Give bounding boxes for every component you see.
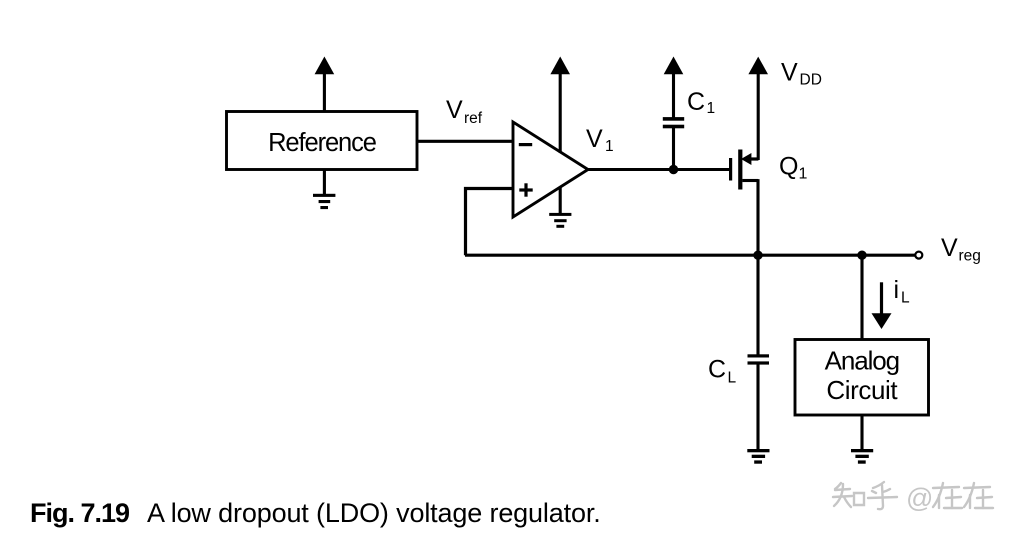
- svg-text:C: C: [687, 88, 705, 116]
- svg-text:i: i: [894, 276, 900, 304]
- svg-text:@: @: [906, 483, 933, 513]
- caption Fig. 7.19: [30, 498, 601, 528]
- svg-text:Analog: Analog: [825, 346, 899, 376]
- svg-text:L: L: [901, 290, 910, 307]
- supply arrow above Reference: [315, 57, 335, 112]
- supply arrow VDD: [748, 57, 768, 160]
- transistor Q1 (PMOS): [729, 150, 758, 256]
- wire Vref: reference output to op-amp inverting input: [417, 140, 513, 143]
- value label C1: [687, 88, 715, 117]
- analog circuit box: [795, 340, 929, 416]
- ground under analog circuit: [851, 449, 873, 464]
- wire Vreg rail: [465, 254, 915, 257]
- char zhi (mouth box): [854, 493, 864, 505]
- char zai 2: [964, 487, 990, 488]
- net label VDD: [781, 59, 822, 89]
- svg-text:Q: Q: [779, 153, 798, 181]
- op-amp U1 triangle: [513, 122, 588, 217]
- svg-text:V: V: [586, 125, 603, 153]
- ground under reference box: [313, 170, 335, 210]
- char zhi (left radical): [835, 483, 841, 489]
- junction dot at Q1 drain / CL: [753, 251, 762, 260]
- svg-text:Reference: Reference: [268, 129, 377, 157]
- op-amp minus sign (inverting input): [519, 143, 532, 146]
- svg-text:Fig. 7.19: Fig. 7.19: [30, 498, 130, 528]
- transistor label Q1: [779, 153, 808, 183]
- wire analog circuit to ground: [860, 415, 863, 450]
- supply arrow above C1: [664, 57, 684, 118]
- svg-text:V: V: [446, 96, 463, 124]
- svg-text:1: 1: [605, 138, 614, 155]
- current label iL: [894, 276, 911, 307]
- svg-text:V: V: [941, 234, 958, 262]
- open terminal circle Vreg: [915, 252, 922, 259]
- junction node V1 dot: [669, 165, 678, 174]
- svg-text:ref: ref: [464, 110, 483, 127]
- net label Vreg: [941, 234, 981, 265]
- svg-text:Circuit: Circuit: [826, 375, 898, 405]
- svg-text:1: 1: [707, 100, 716, 117]
- char zai 1: [933, 487, 959, 488]
- node label Vref: [446, 96, 483, 127]
- node label V1: [586, 125, 614, 155]
- wire op-amp output (node V1): [587, 168, 730, 171]
- svg-text:1: 1: [799, 166, 808, 183]
- ground under CL: [747, 449, 769, 464]
- wire feedback: non-inverting input down to Vreg rail: [466, 189, 514, 256]
- capacitor CL: [748, 354, 770, 450]
- op-amp plus sign (non-inverting input): [519, 183, 532, 196]
- reference box: [227, 112, 418, 170]
- ground under op-amp: [549, 187, 571, 228]
- svg-text:L: L: [728, 370, 737, 387]
- watermark zhihu: [833, 482, 993, 513]
- value label CL: [708, 356, 737, 387]
- supply arrow above op-amp: [550, 57, 570, 153]
- char hu: [873, 482, 884, 488]
- wire from rail down to analog circuit box: [860, 255, 863, 339]
- svg-text:reg: reg: [959, 248, 981, 265]
- svg-text:A low dropout (LDO) voltage re: A low dropout (LDO) voltage regulator.: [147, 498, 601, 528]
- svg-text:V: V: [781, 59, 798, 87]
- wire Q1 drain down to capacitor CL: [756, 255, 759, 354]
- svg-text:DD: DD: [800, 72, 822, 89]
- svg-text:C: C: [708, 356, 726, 384]
- capacitor C1: [663, 117, 684, 169]
- junction dot above analog circuit: [857, 251, 866, 260]
- current arrow iL: [872, 282, 892, 329]
